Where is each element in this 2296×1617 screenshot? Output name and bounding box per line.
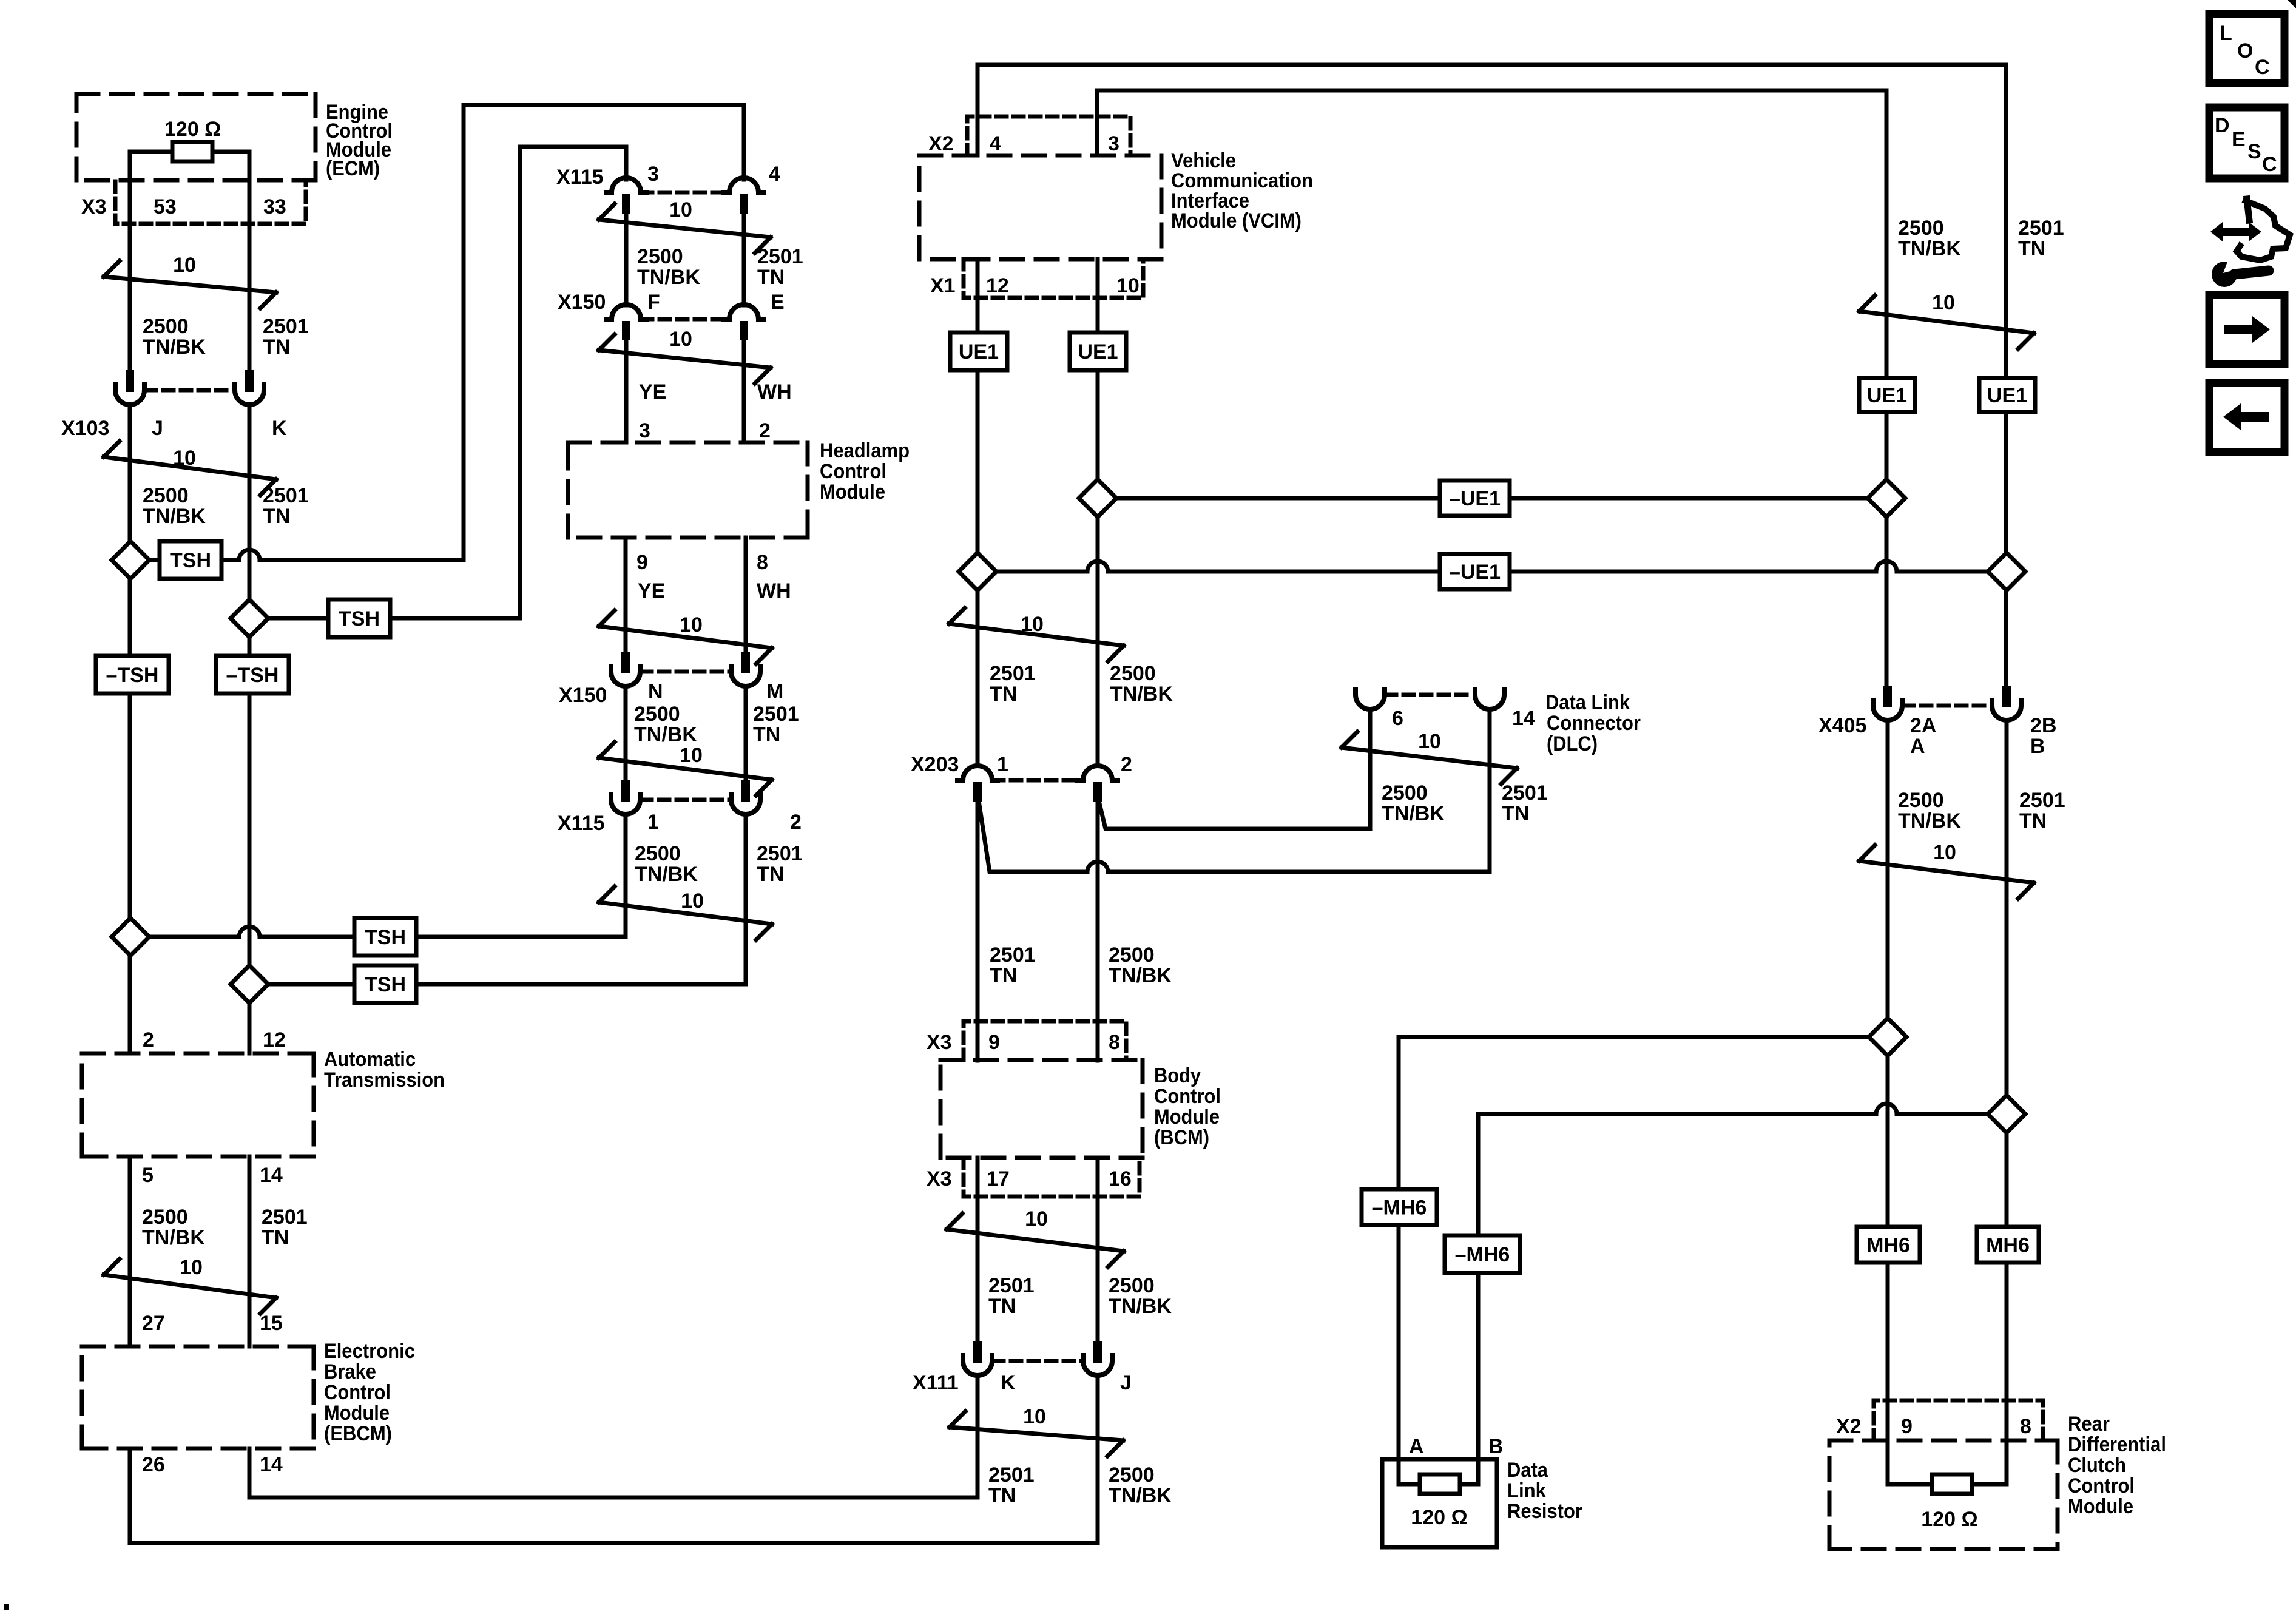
svg-text:Data Link: Data Link xyxy=(1545,691,1630,714)
svg-text:10: 10 xyxy=(680,744,703,767)
svg-text:E: E xyxy=(771,291,785,314)
svg-text:2501: 2501 xyxy=(2018,217,2064,240)
svg-text:N: N xyxy=(648,680,663,703)
svg-text:120 Ω: 120 Ω xyxy=(164,118,221,141)
svg-text:10: 10 xyxy=(1418,730,1441,753)
svg-text:2: 2 xyxy=(1121,753,1132,776)
svg-text:(EBCM): (EBCM) xyxy=(324,1422,392,1445)
svg-text:2500: 2500 xyxy=(143,484,189,507)
svg-text:X3: X3 xyxy=(81,195,107,218)
svg-text:17: 17 xyxy=(987,1167,1010,1190)
svg-text:A: A xyxy=(1409,1435,1424,1458)
svg-text:10: 10 xyxy=(180,1256,203,1279)
svg-text:Connector: Connector xyxy=(1547,712,1641,735)
svg-text:TN: TN xyxy=(753,723,780,746)
svg-text:2501: 2501 xyxy=(757,842,803,865)
svg-text:Electronic: Electronic xyxy=(324,1340,415,1363)
svg-text:2: 2 xyxy=(790,811,802,834)
svg-text:2501: 2501 xyxy=(263,484,309,507)
svg-text:O: O xyxy=(2237,39,2253,62)
svg-text:TN/BK: TN/BK xyxy=(1109,1484,1172,1507)
svg-text:B: B xyxy=(1488,1435,1504,1458)
svg-text:2500: 2500 xyxy=(1109,944,1155,967)
svg-text:10: 10 xyxy=(1933,841,1956,864)
svg-text:K: K xyxy=(1001,1371,1016,1394)
svg-text:UE1: UE1 xyxy=(1987,384,2027,407)
svg-text:TN: TN xyxy=(988,1484,1016,1507)
svg-text:TSH: TSH xyxy=(365,926,406,949)
svg-text:2501: 2501 xyxy=(1502,781,1548,805)
svg-text:TN/BK: TN/BK xyxy=(1898,809,1961,832)
svg-text:E: E xyxy=(2232,128,2246,151)
svg-text:Body: Body xyxy=(1154,1064,1201,1087)
svg-text:–TSH: –TSH xyxy=(106,664,159,687)
svg-text:TN: TN xyxy=(757,863,784,886)
svg-text:Headlamp: Headlamp xyxy=(820,439,910,462)
svg-text:10: 10 xyxy=(173,447,196,470)
svg-text:Control: Control xyxy=(2068,1474,2135,1497)
svg-text:3: 3 xyxy=(647,163,659,186)
svg-text:Module: Module xyxy=(1154,1106,1220,1129)
svg-text:X103: X103 xyxy=(61,417,109,440)
svg-text:A: A xyxy=(1910,735,1925,758)
svg-text:2501: 2501 xyxy=(263,315,309,338)
svg-text:2A: 2A xyxy=(1910,714,1936,737)
svg-text:Control: Control xyxy=(324,1381,391,1404)
svg-text:2500: 2500 xyxy=(143,315,189,338)
svg-text:14: 14 xyxy=(260,1453,283,1476)
svg-text:(DLC): (DLC) xyxy=(1547,732,1598,755)
svg-text:Automatic: Automatic xyxy=(324,1048,416,1071)
svg-text:YE: YE xyxy=(638,579,665,603)
svg-text:TN/BK: TN/BK xyxy=(1109,1295,1172,1318)
svg-text:27: 27 xyxy=(142,1312,165,1335)
svg-text:J: J xyxy=(152,417,163,440)
svg-text:–UE1: –UE1 xyxy=(1449,561,1501,584)
svg-text:C: C xyxy=(2262,153,2277,176)
svg-text:TN/BK: TN/BK xyxy=(142,1226,205,1249)
svg-text:–MH6: –MH6 xyxy=(1455,1243,1510,1266)
svg-text:2501: 2501 xyxy=(990,662,1036,685)
svg-text:J: J xyxy=(1120,1371,1132,1394)
svg-text:TN: TN xyxy=(263,336,290,359)
svg-text:TN: TN xyxy=(262,1226,289,1249)
svg-text:2500: 2500 xyxy=(1110,662,1156,685)
svg-text:X203: X203 xyxy=(911,753,959,776)
svg-text:6: 6 xyxy=(1392,707,1403,730)
svg-text:TN: TN xyxy=(990,964,1017,987)
svg-text:16: 16 xyxy=(1109,1167,1132,1190)
svg-text:S: S xyxy=(2247,140,2261,163)
svg-text:1: 1 xyxy=(647,811,659,834)
svg-text:Module: Module xyxy=(324,1402,390,1425)
svg-text:10: 10 xyxy=(1116,274,1140,297)
svg-text:TN/BK: TN/BK xyxy=(637,266,700,289)
svg-text:10: 10 xyxy=(173,254,196,277)
svg-text:D: D xyxy=(2215,114,2230,137)
svg-text:Data: Data xyxy=(1507,1459,1548,1482)
svg-text:2501: 2501 xyxy=(757,245,803,268)
svg-text:8: 8 xyxy=(2020,1415,2031,1438)
svg-text:Module: Module xyxy=(820,481,885,504)
svg-text:120 Ω: 120 Ω xyxy=(1411,1506,1467,1529)
svg-text:TSH: TSH xyxy=(170,549,211,572)
svg-text:Control: Control xyxy=(1154,1085,1221,1108)
svg-text:15: 15 xyxy=(260,1312,283,1335)
svg-text:2500: 2500 xyxy=(1898,217,1944,240)
svg-text:2500: 2500 xyxy=(142,1206,188,1229)
svg-text:TN/BK: TN/BK xyxy=(1382,802,1445,825)
svg-text:2500: 2500 xyxy=(634,703,680,726)
svg-text:X2: X2 xyxy=(928,132,954,155)
svg-text:9: 9 xyxy=(636,551,648,574)
svg-text:MH6: MH6 xyxy=(1986,1234,2030,1257)
svg-text:TN/BK: TN/BK xyxy=(143,505,206,528)
svg-text:12: 12 xyxy=(263,1028,286,1052)
svg-text:120 Ω: 120 Ω xyxy=(1921,1508,1977,1531)
svg-text:X1: X1 xyxy=(930,274,956,297)
svg-text:X2: X2 xyxy=(1836,1415,1862,1438)
svg-text:2500: 2500 xyxy=(1109,1274,1155,1297)
svg-text:TSH: TSH xyxy=(339,607,380,630)
svg-text:Rear: Rear xyxy=(2068,1413,2110,1436)
svg-text:8: 8 xyxy=(1109,1031,1120,1054)
svg-text:TN/BK: TN/BK xyxy=(1109,964,1172,987)
svg-text:Module: Module xyxy=(2068,1495,2133,1518)
svg-text:Resistor: Resistor xyxy=(1507,1500,1582,1523)
svg-text:TN/BK: TN/BK xyxy=(143,336,206,359)
svg-text:UE1: UE1 xyxy=(959,340,999,363)
svg-text:UE1: UE1 xyxy=(1867,384,1907,407)
svg-text:TN: TN xyxy=(988,1295,1016,1318)
svg-text:2500: 2500 xyxy=(635,842,681,865)
svg-text:2500: 2500 xyxy=(637,245,683,268)
svg-text:M: M xyxy=(766,680,783,703)
svg-text:10: 10 xyxy=(681,890,704,913)
svg-text:C: C xyxy=(2255,56,2270,79)
svg-text:TN: TN xyxy=(263,505,290,528)
svg-text:X115: X115 xyxy=(558,812,605,835)
svg-text:YE: YE xyxy=(639,380,666,403)
svg-text:2B: 2B xyxy=(2030,714,2056,737)
svg-text:9: 9 xyxy=(988,1031,1000,1054)
svg-text:5: 5 xyxy=(142,1164,154,1187)
svg-text:X3: X3 xyxy=(927,1031,952,1054)
svg-text:X150: X150 xyxy=(558,291,606,314)
svg-text:53: 53 xyxy=(154,195,177,218)
svg-text:–TSH: –TSH xyxy=(226,664,279,687)
svg-text:(ECM): (ECM) xyxy=(326,157,380,180)
svg-text:10: 10 xyxy=(1023,1405,1046,1428)
svg-text:2501: 2501 xyxy=(990,944,1036,967)
svg-text:TN/BK: TN/BK xyxy=(635,863,698,886)
svg-text:X3: X3 xyxy=(927,1167,952,1190)
svg-text:2: 2 xyxy=(143,1028,154,1052)
svg-text:Transmission: Transmission xyxy=(324,1068,445,1092)
svg-text:Brake: Brake xyxy=(324,1360,376,1383)
svg-text:Link: Link xyxy=(1507,1479,1546,1502)
svg-text:WH: WH xyxy=(757,380,792,403)
svg-text:TN: TN xyxy=(990,683,1017,706)
svg-text:X150: X150 xyxy=(559,684,607,707)
svg-text:10: 10 xyxy=(680,613,703,636)
svg-text:10: 10 xyxy=(1025,1207,1048,1230)
svg-text:10: 10 xyxy=(1021,613,1044,636)
svg-text:2501: 2501 xyxy=(753,703,799,726)
svg-text:12: 12 xyxy=(986,274,1009,297)
svg-text:3: 3 xyxy=(639,419,650,442)
svg-text:2501: 2501 xyxy=(262,1206,308,1229)
svg-text:–UE1: –UE1 xyxy=(1449,487,1501,510)
svg-text:2: 2 xyxy=(759,419,771,442)
svg-text:B: B xyxy=(2030,735,2045,758)
svg-text:2501: 2501 xyxy=(988,1274,1035,1297)
svg-text:14: 14 xyxy=(260,1164,283,1187)
svg-text:10: 10 xyxy=(669,198,692,221)
svg-text:4: 4 xyxy=(990,132,1001,155)
svg-text:2501: 2501 xyxy=(2019,789,2065,812)
svg-text:2500: 2500 xyxy=(1898,789,1944,812)
svg-text:2500: 2500 xyxy=(1109,1463,1155,1487)
svg-text:2500: 2500 xyxy=(1382,781,1428,805)
svg-text:(BCM): (BCM) xyxy=(1154,1126,1209,1149)
svg-text:Differential: Differential xyxy=(2068,1433,2166,1456)
svg-text:4: 4 xyxy=(769,163,780,186)
svg-text:10: 10 xyxy=(669,328,692,351)
svg-text:8: 8 xyxy=(757,551,768,574)
svg-text:TN/BK: TN/BK xyxy=(634,723,697,746)
svg-text:Control: Control xyxy=(820,460,886,483)
svg-text:9: 9 xyxy=(1901,1415,1913,1438)
svg-text:X111: X111 xyxy=(913,1371,959,1394)
svg-text:1: 1 xyxy=(997,753,1008,776)
svg-text:Clutch: Clutch xyxy=(2068,1454,2126,1477)
svg-text:2501: 2501 xyxy=(988,1463,1035,1487)
svg-text:TN: TN xyxy=(1502,802,1529,825)
svg-text:UE1: UE1 xyxy=(1078,340,1118,363)
svg-text:3: 3 xyxy=(1108,132,1119,155)
svg-text:K: K xyxy=(272,417,287,440)
svg-text:F: F xyxy=(647,291,660,314)
svg-text:X405: X405 xyxy=(1818,714,1866,737)
svg-text:TN: TN xyxy=(757,266,785,289)
svg-text:WH: WH xyxy=(757,579,791,603)
svg-text:TSH: TSH xyxy=(365,973,406,996)
svg-text:33: 33 xyxy=(263,195,286,218)
svg-text:TN/BK: TN/BK xyxy=(1110,683,1173,706)
svg-text:TN: TN xyxy=(2019,809,2047,832)
svg-text:MH6: MH6 xyxy=(1866,1234,1910,1257)
svg-text:L: L xyxy=(2220,22,2232,45)
svg-text:TN/BK: TN/BK xyxy=(1898,237,1961,260)
svg-text:26: 26 xyxy=(142,1453,165,1476)
svg-text:X115: X115 xyxy=(556,166,604,189)
svg-text:–MH6: –MH6 xyxy=(1372,1197,1427,1220)
svg-text:14: 14 xyxy=(1512,707,1535,730)
svg-text:Module (VCIM): Module (VCIM) xyxy=(1171,209,1302,232)
svg-text:10: 10 xyxy=(1932,291,1955,314)
svg-text:TN: TN xyxy=(2018,237,2045,260)
